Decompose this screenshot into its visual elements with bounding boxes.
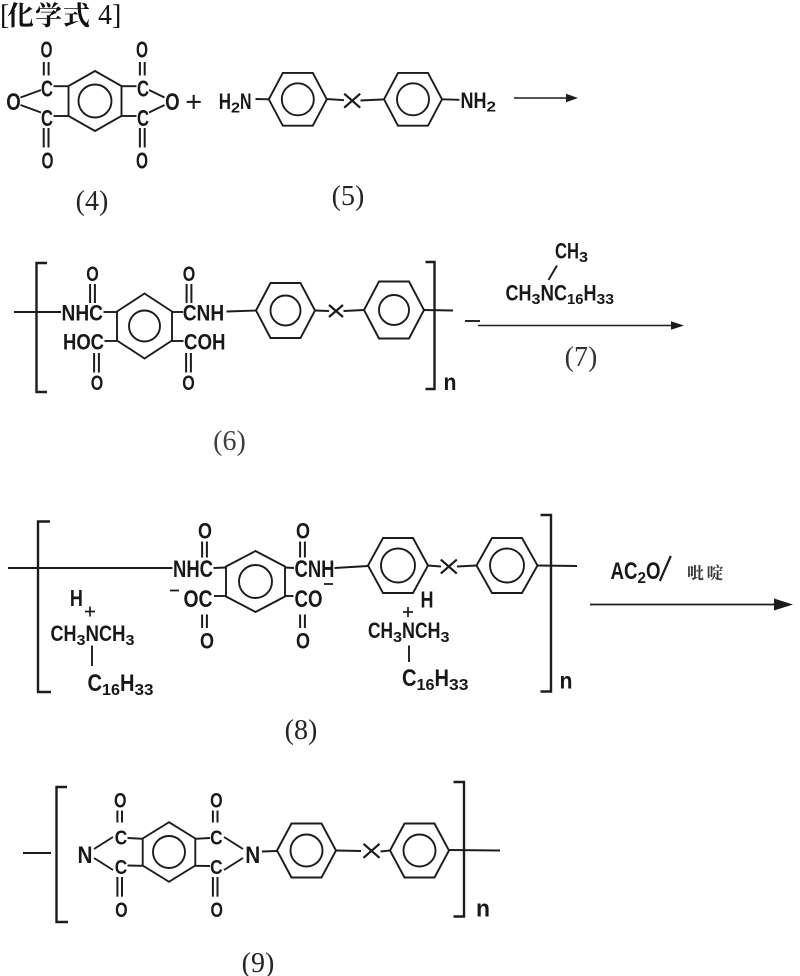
compound 6: chain bond left xyxy=(14,311,61,313)
compound 8: amide NHC xyxy=(173,556,213,583)
compound 6: double bond bottom-right xyxy=(186,353,191,373)
header text 化 xyxy=(8,2,34,27)
compound 6: amide NHC xyxy=(62,301,104,326)
compound 9: central benzene ring xyxy=(143,822,196,882)
svg-text:O: O xyxy=(646,558,661,585)
compound 8: bond NH-ring C xyxy=(335,566,369,568)
svg-text:O: O xyxy=(136,148,148,174)
svg-text:C: C xyxy=(402,665,417,692)
compound 9: benzene ring E xyxy=(277,824,336,878)
compound 8: carboxylate CO xyxy=(295,586,323,613)
compound 4: anhydride bond C-O upper-right xyxy=(149,90,165,98)
reaction arrow row 1 xyxy=(514,94,578,102)
compound 8: benzene ring C xyxy=(368,538,428,593)
compound 8: bond ring C-X xyxy=(428,566,441,567)
compound 6: bond ring-C lower-right xyxy=(172,340,184,342)
compound 8: double bond top-right xyxy=(300,542,305,558)
compound 8: carboxylate OC xyxy=(184,586,213,613)
svg-text:C: C xyxy=(115,827,128,849)
svg-text:C: C xyxy=(368,618,381,643)
compound 4: anhydride bond O-C upper-left xyxy=(21,90,42,98)
compound 6: carboxyl HOC xyxy=(63,330,104,355)
compound 9: chain bond through bracket xyxy=(449,849,500,852)
svg-text:4]: 4] xyxy=(98,0,121,31)
compound 9: bond C-ring lower-left xyxy=(128,865,143,867)
svg-text:C: C xyxy=(41,105,53,131)
compound 9: bond C-N lower xyxy=(224,858,243,870)
svg-text:(9): (9) xyxy=(242,948,275,976)
compound 9: double bond bottom-left xyxy=(117,877,122,897)
compound 9: bond N-ring E xyxy=(262,850,277,853)
compound 6: central benzene ring xyxy=(117,294,172,359)
compound 6: benzene ring B xyxy=(364,282,424,339)
compound 6: bond C-ring upper-left xyxy=(104,311,118,313)
compound 9: chain bond left xyxy=(23,852,51,854)
compound 6: continuation dash xyxy=(465,320,480,322)
compound 4: anhydride bond O-C lower-left xyxy=(21,105,42,113)
compound 4: double bond C=O top-right xyxy=(140,62,145,76)
compound 9: left bracket xyxy=(57,787,69,922)
svg-text:H: H xyxy=(219,89,231,114)
svg-text:N: N xyxy=(541,281,555,306)
svg-text:H: H xyxy=(567,239,579,264)
svg-text:C: C xyxy=(415,618,428,643)
compound 9: subscript n xyxy=(476,896,490,923)
svg-text:33: 33 xyxy=(449,677,469,694)
svg-text:C: C xyxy=(624,558,638,585)
svg-text:CO: CO xyxy=(295,586,323,613)
compound 6: bond NH-ring xyxy=(227,311,257,312)
compound 5: amine H2N xyxy=(219,89,252,117)
svg-text:N: N xyxy=(245,842,260,869)
compound 9: bond N-C lower xyxy=(94,858,113,870)
svg-text:O: O xyxy=(41,37,53,63)
svg-text:C: C xyxy=(41,76,53,102)
svg-text:H: H xyxy=(70,585,83,611)
svg-text:OC: OC xyxy=(184,586,213,613)
svg-text:(8): (8) xyxy=(285,715,318,746)
compound 6: bond X-ring B xyxy=(344,310,365,311)
reagent pyridine 啶 xyxy=(708,564,723,580)
compound 9: bond X-ring F xyxy=(381,851,391,852)
compound 8: central benzene ring xyxy=(226,551,285,612)
reaction arrow row 3 xyxy=(590,599,793,611)
svg-text:O: O xyxy=(182,372,195,395)
svg-text:O: O xyxy=(200,629,214,654)
compound 9: bond ring E-X xyxy=(336,850,361,853)
compound 4: bond C-ring upper-left xyxy=(54,85,69,87)
compound 9: bond C-ring upper-left xyxy=(128,837,143,840)
svg-text:3: 3 xyxy=(532,291,541,308)
compound 9: bond ring-C upper-right xyxy=(195,837,210,840)
compound 4: double bond C=O bottom-right xyxy=(140,128,145,148)
svg-text:COH: COH xyxy=(184,330,226,355)
svg-text:C: C xyxy=(99,621,112,646)
svg-text:O: O xyxy=(296,519,310,544)
svg-text:n: n xyxy=(444,369,457,395)
svg-text:2: 2 xyxy=(487,99,497,116)
svg-text:16: 16 xyxy=(567,291,584,308)
svg-text:CNH: CNH xyxy=(183,301,225,326)
compound 8: amide CNH xyxy=(295,556,335,583)
compound 6: subscript n xyxy=(444,369,457,395)
compound 8: bond C-ring upper-left xyxy=(214,567,227,570)
svg-text:(4): (4) xyxy=(76,186,109,217)
svg-text:C: C xyxy=(115,857,128,879)
compound 6: linker X xyxy=(329,305,343,317)
compound 5: bond X-ring xyxy=(361,99,385,100)
svg-text:C: C xyxy=(554,281,567,306)
reaction arrow row 2 xyxy=(478,321,684,329)
svg-text:N: N xyxy=(402,618,415,643)
compound 4: double bond C=O bottom-left xyxy=(44,128,49,148)
svg-text:C: C xyxy=(506,281,519,306)
svg-text:H: H xyxy=(64,621,77,646)
compound 8: linker X xyxy=(441,560,457,574)
svg-text:H: H xyxy=(381,618,394,643)
compound 9: double bond bottom-right xyxy=(213,877,218,897)
compound 4: anhydride bond C-O lower-right xyxy=(149,105,165,113)
svg-text:C: C xyxy=(210,827,223,849)
compound 6: amide CNH xyxy=(183,301,225,326)
compound 5: linker X xyxy=(344,94,360,108)
compound 8: bond N-C16 left xyxy=(91,646,93,667)
compound 8: superscript minus left xyxy=(170,590,179,592)
svg-text:NH: NH xyxy=(461,88,487,113)
svg-text:(7): (7) xyxy=(565,342,598,373)
svg-text:2: 2 xyxy=(638,570,647,587)
reagent 7: CH3 top xyxy=(555,239,588,267)
svg-text:C: C xyxy=(88,670,103,697)
svg-text:H: H xyxy=(120,670,135,697)
compound 6: left bracket xyxy=(37,263,48,392)
svg-text:N: N xyxy=(86,621,100,646)
compound 4: double bond C=O top-left xyxy=(44,62,49,76)
svg-text:H: H xyxy=(435,665,450,692)
reagent Ac2O xyxy=(611,558,661,587)
compound 4: bond C-ring lower-left xyxy=(54,115,69,117)
svg-text:C: C xyxy=(210,857,223,879)
svg-text:3: 3 xyxy=(77,632,86,649)
compound 6: double bond bottom-left xyxy=(94,353,99,373)
svg-text:3: 3 xyxy=(126,632,135,649)
compound 8: ammonium plus left xyxy=(85,607,95,617)
compound 8: right bracket xyxy=(541,515,552,692)
compound 5: bond ring-N xyxy=(442,98,460,101)
svg-text:O: O xyxy=(114,790,127,813)
compound 4: central benzene ring with circle xyxy=(69,71,122,131)
svg-text:H: H xyxy=(584,281,597,306)
svg-text:O: O xyxy=(115,899,128,922)
compound 6: right bracket xyxy=(426,262,435,389)
compound 8: chain bond through bracket xyxy=(538,565,578,568)
svg-text:C: C xyxy=(137,76,149,102)
compound 4: bond ring-C lower-right xyxy=(122,115,137,117)
svg-text:N: N xyxy=(240,89,252,114)
compound 8: bond ring-C upper-right xyxy=(285,567,294,570)
compound 6: chain bond through bracket xyxy=(424,309,453,312)
reagent pyridine 吡 xyxy=(688,565,704,580)
compound 9: bond N-C upper xyxy=(94,837,113,849)
svg-text:16: 16 xyxy=(417,677,435,694)
compound 6: benzene ring A xyxy=(256,283,315,338)
svg-text:C: C xyxy=(137,105,149,131)
compound 8: left bracket xyxy=(38,522,51,693)
compound 6: carboxyl COH xyxy=(184,330,226,355)
reagent slash xyxy=(660,556,671,581)
svg-text:C: C xyxy=(51,621,64,646)
compound 8: bond N-C16 right xyxy=(408,646,410,663)
plus sign between 4 and 5 xyxy=(187,95,201,109)
compound 8: benzene ring D xyxy=(477,538,538,593)
svg-text:(6): (6) xyxy=(213,426,246,457)
svg-text:[: [ xyxy=(0,0,9,31)
compound 5: bond N-ring xyxy=(256,98,270,100)
compound 4: bond ring-C upper-right xyxy=(122,85,137,87)
compound 8: ammonium plus right xyxy=(403,607,413,617)
compound 9: double bond top-right xyxy=(213,811,218,823)
compound 6: bond ring-C upper-right xyxy=(172,311,183,313)
compound 8: chain bond left xyxy=(8,567,173,569)
compound 9: bond ring-C lower-right xyxy=(195,865,210,867)
compound 9: bond C-N upper xyxy=(224,837,243,849)
svg-text:(5): (5) xyxy=(332,181,365,212)
svg-text:H: H xyxy=(519,281,532,306)
compound 8: ammonium CH3NCH3 left xyxy=(51,621,135,649)
compound 8: double bond bottom-right xyxy=(300,615,305,629)
header text 式 xyxy=(64,2,89,27)
compound 8: superscript minus right xyxy=(324,583,333,585)
reagent 7: CH3NC16H33 xyxy=(506,281,615,309)
svg-text:33: 33 xyxy=(135,682,154,699)
svg-text:N: N xyxy=(78,842,93,869)
svg-text:HOC: HOC xyxy=(63,330,104,355)
compound 9: right bracket xyxy=(454,782,465,917)
svg-text:n: n xyxy=(476,896,490,923)
compound 5: amine NH2 xyxy=(461,88,497,116)
header text 学 xyxy=(36,2,61,27)
svg-text:NHC: NHC xyxy=(62,301,104,326)
svg-text:H: H xyxy=(428,618,441,643)
compound 8: bond X-ring D xyxy=(457,566,477,567)
compound 8: double bond top-left xyxy=(202,542,207,558)
svg-text:O: O xyxy=(296,629,310,654)
compound 8: ammonium C16H33 left xyxy=(88,670,154,699)
compound 9: benzene ring F xyxy=(390,824,449,878)
compound 8: double bond bottom-left xyxy=(202,615,207,629)
compound 9: double bond top-left xyxy=(117,811,122,823)
compound 6: double bond top-left xyxy=(90,284,95,303)
compound 5: benzene ring right xyxy=(384,73,442,126)
svg-text:16: 16 xyxy=(102,682,120,699)
svg-text:O: O xyxy=(6,89,21,116)
svg-text:A: A xyxy=(611,558,625,585)
compound 8: ammonium CH3NCH3 right xyxy=(368,618,450,646)
compound 8: bond ring-C lower-right xyxy=(285,595,294,597)
svg-text:NHC: NHC xyxy=(173,556,213,583)
compound 8: bond C-ring lower-left xyxy=(214,595,226,597)
compound 9: linker X xyxy=(364,844,380,858)
compound 8: subscript n xyxy=(560,668,573,694)
compound 5: bond ring-X xyxy=(327,99,344,100)
reagent 7: bond slash xyxy=(549,266,558,281)
compound 8: ammonium C16H33 right xyxy=(402,665,469,694)
compound 6: bond ring A-X xyxy=(315,310,329,313)
svg-text:CNH: CNH xyxy=(295,556,335,583)
svg-text:O: O xyxy=(198,519,212,544)
svg-text:H: H xyxy=(112,621,126,646)
svg-text:O: O xyxy=(136,37,148,63)
svg-text:O: O xyxy=(211,899,224,922)
svg-text:H: H xyxy=(421,587,434,613)
compound 5: benzene ring left xyxy=(269,73,327,126)
svg-text:33: 33 xyxy=(597,291,615,308)
svg-text:O: O xyxy=(91,372,104,395)
svg-text:3: 3 xyxy=(393,629,402,646)
svg-text:O: O xyxy=(86,263,99,286)
svg-text:O: O xyxy=(183,263,196,286)
svg-text:3: 3 xyxy=(441,629,450,646)
compound 6: bond C-ring lower-left xyxy=(105,340,118,342)
svg-text:3: 3 xyxy=(579,249,588,266)
svg-text:2: 2 xyxy=(231,100,240,117)
svg-text:O: O xyxy=(210,790,223,813)
svg-text:C: C xyxy=(555,239,567,264)
svg-text:O: O xyxy=(165,89,180,116)
compound 6: double bond top-right xyxy=(187,284,192,303)
svg-text:O: O xyxy=(42,148,54,174)
svg-text:n: n xyxy=(560,668,573,694)
